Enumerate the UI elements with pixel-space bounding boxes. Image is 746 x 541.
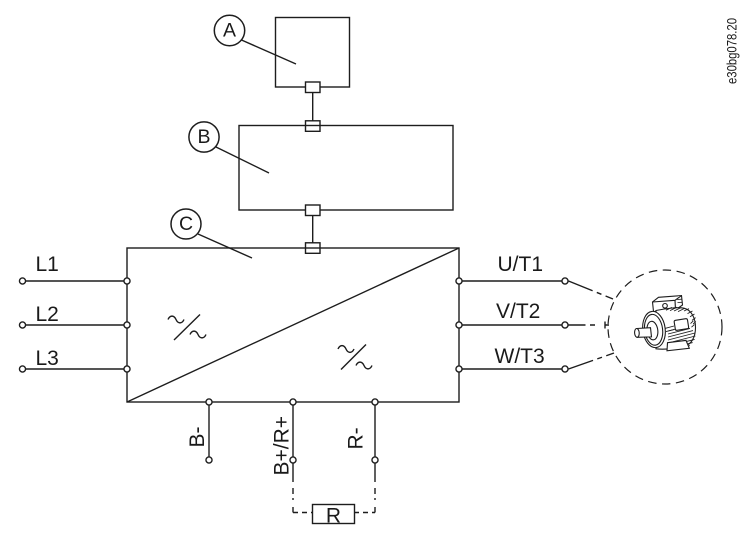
diagonal line in box C [127, 248, 459, 402]
dash-dot wire U/T1 to motor [569, 281, 614, 299]
callout circle B [189, 122, 219, 152]
dash-dot wire W/T3 to motor [569, 353, 615, 369]
svg-text:V/T2: V/T2 [496, 300, 540, 323]
connector square on box C top [306, 243, 321, 254]
wire L3 [26, 368, 124, 370]
svg-text:U/T1: U/T1 [498, 253, 544, 276]
terminal circle L1 input [19, 278, 25, 284]
wire W/T3 [463, 368, 562, 370]
terminal circle V/T2 at converter [456, 322, 462, 328]
tick at motor end of V/T2 wire [605, 322, 609, 329]
motor body top hatching [666, 307, 685, 311]
terminal circle B- at converter [206, 399, 212, 405]
wire U/T1 [463, 280, 562, 282]
dashed motor boundary circle [608, 270, 722, 384]
svg-text:B-: B- [186, 426, 209, 447]
connector square on box B bottom [306, 205, 321, 216]
wire L2 [26, 324, 124, 326]
wire V/T2 [463, 324, 562, 326]
svg-text:B+/R+: B+/R+ [271, 416, 294, 476]
motor terminal box [653, 296, 683, 312]
connector square on box B top [306, 121, 321, 132]
leader line B [216, 147, 269, 173]
leader line C [198, 234, 252, 258]
dash-dot wire V/T2 to motor [569, 324, 596, 326]
wire B to C [312, 216, 314, 245]
motor hub [646, 321, 659, 341]
motor body [656, 308, 696, 349]
terminal circle W/T3 at converter [456, 366, 462, 372]
terminal circle W/T3 output [562, 366, 568, 372]
svg-text:L2: L2 [36, 303, 59, 326]
terminal circle L2 at converter [124, 322, 130, 328]
motor right cap hatching [684, 290, 696, 327]
terminal circle B- end [206, 457, 212, 463]
terminal circle R- end [372, 457, 378, 463]
svg-text:W/T3: W/T3 [495, 345, 545, 368]
terminal circle L1 at converter [124, 278, 130, 284]
dash-dot wire R- down [374, 464, 376, 513]
resistor R box [313, 505, 355, 524]
svg-text:R-: R- [345, 427, 368, 449]
terminal circle V/T2 output [562, 322, 568, 328]
svg-text:B: B [197, 126, 210, 148]
connector square on box A bottom [306, 82, 321, 93]
motor lower body hatching [665, 326, 695, 348]
svg-text:e30bg078.20: e30bg078.20 [725, 18, 740, 84]
dash-dot wire B+/R+ down [292, 464, 294, 513]
box B (filter) [239, 126, 453, 211]
svg-text:C: C [179, 213, 193, 235]
terminal circle L2 input [19, 322, 25, 328]
wire B- [208, 406, 210, 457]
terminal circle B+/R+ end [290, 457, 296, 463]
terminal circle U/T1 at converter [456, 278, 462, 284]
svg-text:A: A [223, 20, 236, 42]
motor front face [641, 310, 668, 349]
callout circle C [171, 209, 201, 239]
AC symbol right (~/~) [338, 345, 372, 370]
svg-text:L3: L3 [36, 347, 59, 370]
dashed wire to resistor R left [293, 512, 312, 514]
terminal circle L3 input [19, 366, 25, 372]
motor side plate [674, 319, 688, 331]
motor icon [634, 290, 696, 351]
terminal circle L3 at converter [124, 366, 130, 372]
wire R- [374, 406, 376, 457]
terminal circle R- at converter [372, 399, 378, 405]
AC symbol left (~/~) [168, 315, 206, 341]
terminal circle U/T1 output [562, 278, 568, 284]
wire B+/R+ [292, 406, 294, 457]
box C (frequency converter) [127, 248, 459, 402]
wire L1 [26, 280, 124, 282]
svg-text:L1: L1 [36, 253, 59, 276]
motor shaft [637, 328, 652, 338]
svg-text:R: R [326, 504, 341, 527]
callout circle A [214, 15, 244, 45]
box A (mains switch) [276, 18, 350, 88]
wire A to B [312, 93, 314, 122]
terminal circle B+/R+ at converter [290, 399, 296, 405]
dashed wire to resistor R right [354, 512, 375, 514]
leader line A [242, 40, 297, 64]
motor foot [667, 340, 689, 350]
